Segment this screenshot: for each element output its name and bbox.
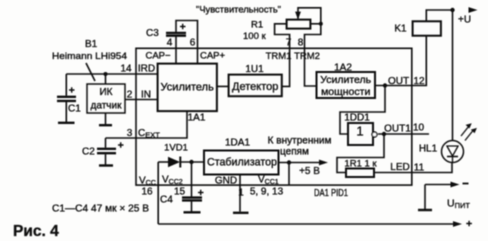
svg-text:датчик: датчик [91, 101, 123, 112]
svg-text:1DA1: 1DA1 [225, 138, 250, 149]
svg-text:цепям: цепям [280, 147, 309, 158]
svg-text:Усилитель: Усилитель [161, 82, 215, 94]
svg-text:1A2: 1A2 [334, 63, 352, 74]
svg-text:6: 6 [190, 38, 196, 49]
svg-text:100 к: 100 к [243, 31, 266, 42]
svg-text:R1: R1 [251, 20, 263, 31]
svg-text:16: 16 [141, 187, 153, 198]
svg-text:15: 15 [174, 187, 186, 198]
svg-text:1DD1: 1DD1 [344, 113, 370, 124]
svg-text:Детектор: Детектор [232, 81, 278, 93]
svg-text:1: 1 [356, 124, 363, 139]
svg-text:С1—С4 47 мк × 25 В: С1—С4 47 мк × 25 В [52, 204, 149, 215]
svg-text:1R1 1 к: 1R1 1 к [344, 159, 377, 170]
svg-text:14: 14 [120, 64, 132, 75]
svg-text:+U: +U [458, 15, 471, 26]
svg-text:1VD1: 1VD1 [164, 143, 188, 154]
svg-text:C2: C2 [82, 147, 95, 158]
svg-text:VCC: VCC [139, 176, 156, 188]
svg-text:4: 4 [167, 38, 173, 49]
svg-text:VCC2: VCC2 [162, 175, 183, 187]
svg-text:7: 7 [286, 38, 292, 49]
svg-text:CAP−: CAP− [145, 51, 171, 62]
svg-text:Стабилизатор: Стабилизатор [207, 157, 277, 169]
svg-text:TRM1: TRM1 [266, 51, 292, 62]
svg-text:VCC1: VCC1 [258, 175, 279, 187]
svg-text:2: 2 [127, 90, 133, 101]
svg-text:C3: C3 [146, 28, 159, 39]
svg-text:1: 1 [238, 188, 244, 199]
svg-text:10: 10 [413, 123, 425, 134]
svg-text:UПИТ: UПИТ [447, 198, 470, 211]
svg-text:8: 8 [298, 38, 304, 49]
svg-text:К внутренним: К внутренним [268, 136, 332, 147]
svg-text:Рис. 4: Рис. 4 [13, 223, 59, 240]
svg-text:CAP+: CAP+ [200, 51, 226, 62]
svg-text:DA1 PID1: DA1 PID1 [314, 188, 348, 199]
svg-text:IRD: IRD [138, 64, 155, 75]
svg-text:5, 9, 13: 5, 9, 13 [250, 187, 284, 198]
svg-text:TRM2: TRM2 [294, 51, 320, 62]
svg-text:СЕХТ: СЕХТ [138, 128, 160, 140]
svg-text:C1: C1 [68, 104, 81, 115]
svg-text:HL1: HL1 [419, 144, 438, 155]
svg-text:ИК: ИК [99, 87, 112, 98]
svg-text:OUT1: OUT1 [384, 124, 411, 135]
svg-text:11: 11 [414, 163, 425, 174]
svg-text:Усилитель: Усилитель [320, 74, 371, 86]
svg-text:B1: B1 [85, 39, 98, 50]
svg-text:"Чувствительность": "Чувствительность" [196, 5, 281, 16]
svg-text:C4: C4 [160, 195, 173, 206]
svg-text:12: 12 [413, 76, 425, 87]
svg-text:+5 В: +5 В [299, 166, 320, 177]
svg-text:3: 3 [127, 128, 133, 139]
svg-text:Heimann LHi954: Heimann LHi954 [52, 51, 127, 62]
svg-text:мощности: мощности [321, 86, 370, 98]
svg-text:1A1: 1A1 [188, 113, 206, 124]
svg-text:IN: IN [141, 90, 151, 101]
svg-text:1U1: 1U1 [245, 64, 264, 75]
svg-text:LED: LED [390, 162, 409, 173]
svg-text:OUT: OUT [388, 76, 409, 87]
svg-text:GND: GND [215, 176, 237, 187]
svg-text:K1: K1 [394, 24, 407, 35]
